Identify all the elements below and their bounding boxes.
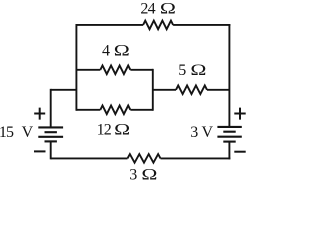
battery 3 V short plate — [223, 131, 235, 133]
plus sign at 3 V battery — [234, 108, 245, 120]
wire top-left segment — [76, 24, 143, 26]
wire 12-ohm branch left lead — [76, 109, 100, 111]
resistor 5 ohm — [176, 86, 207, 95]
svg-text:Ω: Ω — [190, 62, 206, 80]
battery 15 V short plate (-) — [45, 140, 57, 142]
wire right vertical of parallel pair — [152, 69, 154, 111]
wire bottom-left segment — [51, 157, 128, 159]
battery 15 V long plate (+) — [38, 126, 63, 128]
svg-text:V: V — [22, 124, 34, 141]
plus sign at 15 V battery — [34, 108, 45, 120]
svg-text:Ω: Ω — [160, 0, 176, 18]
minus sign at 15 V battery — [34, 150, 46, 152]
wire 4-ohm branch right lead — [130, 69, 152, 71]
battery 3 V long plate — [217, 136, 241, 138]
wire middle-right segment to right rail — [207, 89, 229, 91]
wire right rail bottom stub — [228, 142, 230, 160]
wire left rail top stub — [50, 89, 52, 128]
wire left rail bottom stub — [50, 141, 52, 159]
resistor 12 ohm — [100, 106, 130, 115]
battery 3 V long plate (+) — [217, 126, 241, 128]
wire middle-left segment from 15 V battery — [51, 89, 77, 91]
battery 3 V short plate (-) — [223, 141, 235, 143]
svg-text:24: 24 — [140, 1, 155, 18]
svg-text:12: 12 — [97, 122, 112, 139]
svg-text:5: 5 — [178, 62, 186, 79]
svg-text:Ω: Ω — [114, 42, 130, 60]
wire middle lead into 5 ohm — [153, 89, 176, 91]
wire 12-ohm branch right lead — [130, 109, 152, 111]
resistor 24 ohm — [143, 21, 173, 30]
battery 15 V short plate — [45, 131, 57, 133]
svg-text:4: 4 — [102, 43, 110, 60]
resistor 3 ohm — [128, 154, 161, 163]
wire left inner vertical node — [75, 24, 77, 111]
wire top-right segment — [173, 24, 230, 26]
wire 4-ohm branch left lead — [76, 69, 100, 71]
svg-text:Ω: Ω — [141, 166, 157, 184]
minus sign at 3 V battery — [234, 151, 245, 153]
svg-text:Ω: Ω — [114, 121, 130, 139]
battery 15 V long plate — [38, 136, 63, 138]
svg-text:V: V — [202, 124, 214, 141]
wire bottom-right segment — [161, 157, 231, 159]
resistor 4 ohm — [100, 66, 130, 75]
svg-text:15: 15 — [0, 124, 14, 141]
svg-text:3: 3 — [129, 166, 137, 183]
svg-text:3: 3 — [190, 124, 198, 141]
wire right rail top — [228, 24, 230, 127]
